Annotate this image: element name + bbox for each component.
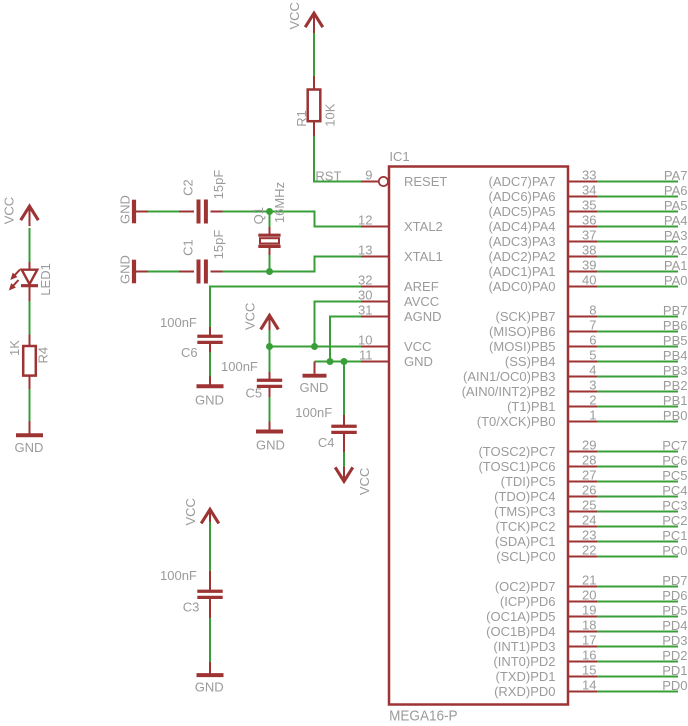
svg-text:(INT0)PD2: (INT0)PD2 (493, 654, 555, 669)
pin 25 stub ((TMS)PC3) (568, 511, 597, 513)
svg-text:31: 31 (358, 303, 372, 318)
pin 16 stub ((INT0)PD2) (568, 661, 597, 663)
wire C2 to XTAL2 node (211, 211, 223, 213)
svg-text:25: 25 (582, 498, 596, 513)
svg-text:(TMS)PC3: (TMS)PC3 (494, 504, 555, 519)
power VCC symbol (below C4, arrow down) (335, 467, 353, 481)
pin 35 stub ((ADC5)PA5) (568, 211, 597, 213)
svg-text:35: 35 (582, 198, 596, 213)
svg-text:(OC2)PD7: (OC2)PD7 (495, 579, 556, 594)
wire net PB1 (597, 406, 678, 408)
pin 22 stub ((SCL)PC0) (568, 556, 597, 558)
pin 40 stub ((ADC0)PA0) (568, 286, 597, 288)
capacitor C5 100nF (257, 379, 282, 382)
svg-text:100nF: 100nF (221, 359, 258, 374)
wire net PA4 (597, 226, 678, 228)
svg-text:PB4: PB4 (663, 348, 688, 363)
svg-text:PB0: PB0 (663, 408, 688, 423)
wire net PA2 (597, 256, 678, 258)
capacitor C2 15pF (197, 200, 201, 224)
svg-text:1: 1 (589, 408, 596, 423)
wire VCC rail to IC1 VCC (270, 346, 362, 348)
svg-text:XTAL2: XTAL2 (404, 219, 443, 234)
pin 14 stub ((RXD)PD0) (568, 691, 597, 693)
svg-text:(OC1A)PD5: (OC1A)PD5 (486, 609, 555, 624)
svg-text:7: 7 (589, 318, 596, 333)
svg-text:(ADC7)PA7: (ADC7)PA7 (489, 174, 556, 189)
wire net PC7 (597, 451, 678, 453)
pin 33 stub ((ADC7)PA7) (568, 181, 597, 183)
pin 30 stub (361, 301, 390, 303)
svg-text:PB3: PB3 (663, 363, 688, 378)
pin 4 stub ((AIN1/OC0)PB3) (568, 376, 597, 378)
svg-text:PA3: PA3 (664, 228, 688, 243)
pin 10 stub (361, 346, 390, 348)
svg-text:(INT1)PD3: (INT1)PD3 (493, 639, 555, 654)
svg-text:(MISO)PB6: (MISO)PB6 (489, 324, 555, 339)
pin 38 stub ((ADC2)PA2) (568, 256, 597, 258)
wire net PB6 (597, 331, 678, 333)
svg-text:GND: GND (118, 255, 133, 284)
svg-text:18: 18 (582, 618, 596, 633)
svg-text:(SCK)PB7: (SCK)PB7 (496, 309, 556, 324)
svg-text:GND: GND (118, 195, 133, 224)
svg-text:C6: C6 (181, 345, 198, 360)
pin 20 stub ((ICP)PD6) (568, 601, 597, 603)
pin 27 stub ((TDI)PC5) (568, 481, 597, 483)
pin 15 stub ((TXD)PD1) (568, 676, 597, 678)
svg-text:17: 17 (582, 633, 596, 648)
wire net PD4 (597, 631, 678, 633)
pin 37 stub ((ADC3)PA3) (568, 241, 597, 243)
wire net PB0 (597, 421, 678, 423)
svg-text:PD1: PD1 (662, 663, 687, 678)
wire net PD0 (597, 691, 678, 693)
wire GND to C2 (148, 211, 179, 213)
svg-text:(SCL)PC0: (SCL)PC0 (496, 549, 555, 564)
svg-text:(OC1B)PD4: (OC1B)PD4 (486, 624, 555, 639)
svg-text:3: 3 (589, 378, 596, 393)
wire C6 to ground (209, 342, 211, 353)
wire C3 to ground (209, 597, 211, 619)
svg-text:C3: C3 (183, 600, 200, 615)
wire LED1 cathode to R4 (29, 287, 31, 301)
pin 36 stub ((ADC4)PA4) (568, 226, 597, 228)
wire net PD5 (597, 616, 678, 618)
svg-text:24: 24 (582, 513, 596, 528)
pin 9 stub with inverting bubble (361, 181, 379, 183)
wire net PD3 (597, 646, 678, 648)
svg-text:(MOSI)PB5: (MOSI)PB5 (489, 339, 555, 354)
svg-text:(RXD)PD0: (RXD)PD0 (494, 684, 555, 699)
wire net PA6 (597, 196, 678, 198)
svg-text:21: 21 (582, 573, 596, 588)
svg-text:10K: 10K (323, 103, 338, 126)
svg-text:37: 37 (582, 228, 596, 243)
wire VCC to LED1 anode (29, 228, 31, 262)
wire net PC1 (597, 541, 678, 543)
resistor R4 1K (23, 346, 36, 376)
ground symbol (C1) (135, 271, 148, 273)
svg-text:PC6: PC6 (662, 453, 687, 468)
svg-text:PD2: PD2 (662, 648, 687, 663)
ground symbol (C6) (209, 376, 211, 385)
wire net PC4 (597, 496, 678, 498)
wire XTAL1 node to IC1 XTAL1 (314, 257, 316, 273)
svg-text:27: 27 (582, 468, 596, 483)
wire net PC3 (597, 511, 678, 513)
svg-text:C5: C5 (246, 385, 263, 400)
power VCC symbol (C3) (201, 509, 219, 523)
ground symbol (LED branch) (29, 425, 31, 434)
pin 31 stub (361, 316, 390, 318)
svg-text:RESET: RESET (404, 174, 447, 189)
svg-text:20: 20 (582, 588, 596, 603)
junction AGND-GND (327, 358, 334, 365)
svg-text:MEGA16-P: MEGA16-P (389, 708, 458, 725)
svg-text:PC4: PC4 (662, 483, 687, 498)
svg-text:100nF: 100nF (295, 405, 332, 420)
junction VCC rail (266, 343, 273, 350)
svg-text:2: 2 (589, 393, 596, 408)
resistor R1 10K (308, 90, 321, 122)
svg-text:IC1: IC1 (389, 149, 409, 164)
wire IC1 AREF to C6 (210, 286, 361, 288)
svg-text:PA2: PA2 (664, 243, 688, 258)
wire net PC0 (597, 556, 678, 558)
wire IC1 AVCC to VCC net (315, 301, 362, 303)
svg-text:PA6: PA6 (664, 183, 688, 198)
pin 19 stub ((OC1A)PD5) (568, 616, 597, 618)
svg-text:30: 30 (358, 288, 372, 303)
svg-text:PD0: PD0 (662, 678, 687, 693)
svg-text:PC0: PC0 (662, 543, 687, 558)
svg-text:GND: GND (15, 440, 44, 455)
pin 3 stub ((AIN0/INT2)PB2) (568, 391, 597, 393)
svg-text:36: 36 (582, 213, 596, 228)
pin 13 stub (361, 256, 390, 258)
wire IC1 AGND to GND net (330, 316, 361, 318)
wire VCC arrow to rail (269, 330, 271, 347)
svg-text:(SDA)PC1: (SDA)PC1 (495, 534, 556, 549)
pin 26 stub ((TDO)PC4) (568, 496, 597, 498)
svg-text:11: 11 (359, 348, 373, 363)
svg-text:(ICP)PD6: (ICP)PD6 (500, 594, 556, 609)
junction C4-GND (341, 358, 348, 365)
svg-text:28: 28 (582, 453, 596, 468)
ground symbol (logic GND) (314, 362, 316, 374)
svg-text:(ADC2)PA2: (ADC2)PA2 (489, 249, 556, 264)
svg-text:GND: GND (195, 393, 224, 408)
svg-text:PA5: PA5 (664, 198, 688, 213)
svg-text:PD3: PD3 (662, 633, 687, 648)
svg-text:(TCK)PC2: (TCK)PC2 (496, 519, 556, 534)
svg-text:23: 23 (582, 528, 596, 543)
capacitor C6 100nF (197, 335, 222, 338)
svg-text:Q1: Q1 (251, 207, 266, 224)
svg-text:(SS)PB4: (SS)PB4 (505, 354, 556, 369)
wire net PA1 (597, 271, 678, 273)
svg-text:PD5: PD5 (662, 603, 687, 618)
pin 39 stub ((ADC1)PA1) (568, 271, 597, 273)
svg-text:14: 14 (582, 678, 596, 693)
wire rail to C5 (269, 347, 271, 372)
svg-text:PA7: PA7 (664, 168, 688, 183)
svg-text:PB7: PB7 (663, 303, 688, 318)
junction XTAL1 node (266, 268, 273, 275)
svg-text:PD4: PD4 (662, 618, 687, 633)
svg-text:PD7: PD7 (662, 573, 687, 588)
wire net PD2 (597, 661, 678, 663)
ground symbol (C2) (135, 211, 148, 213)
wire XTAL2 node to IC1 XTAL2 (314, 211, 316, 227)
wire R1 to RST net (313, 121, 315, 136)
svg-text:6: 6 (589, 333, 596, 348)
wire VCC to C3 (209, 522, 211, 571)
svg-text:VCC: VCC (2, 197, 17, 224)
svg-text:12: 12 (358, 213, 372, 228)
pin 21 stub ((OC2)PD7) (568, 586, 597, 588)
wire net PD6 (597, 601, 678, 603)
wire net PC2 (597, 526, 678, 528)
svg-text:15pF: 15pF (211, 170, 226, 200)
ground symbol (C3) (209, 665, 211, 674)
pin 11 stub (361, 361, 390, 363)
svg-text:19: 19 (582, 603, 596, 618)
svg-text:PC1: PC1 (662, 528, 687, 543)
svg-text:VCC: VCC (243, 303, 258, 330)
pin 23 stub ((SDA)PC1) (568, 541, 597, 543)
wire ground rail to C4 (343, 361, 345, 416)
svg-text:26: 26 (582, 483, 596, 498)
pin 5 stub ((SS)PB4) (568, 361, 597, 363)
svg-text:PD6: PD6 (662, 588, 687, 603)
wire net PB2 (597, 391, 678, 393)
svg-text:1K: 1K (7, 340, 22, 356)
pin 24 stub ((TCK)PC2) (568, 526, 597, 528)
op IC1 MEGA16-P body (389, 167, 568, 705)
pin 34 stub ((ADC6)PA6) (568, 196, 597, 198)
wire net PD7 (597, 586, 678, 588)
svg-text:33: 33 (582, 168, 596, 183)
svg-text:(ADC0)PA0: (ADC0)PA0 (489, 279, 556, 294)
pin 1 stub ((T0/XCK)PB0) (568, 421, 597, 423)
pin 6 stub ((MOSI)PB5) (568, 346, 597, 348)
wire net PC6 (597, 466, 678, 468)
pin 32 stub (361, 286, 390, 288)
svg-text:R4: R4 (36, 347, 51, 364)
pin 2 stub ((T1)PB1) (568, 406, 597, 408)
svg-text:(ADC6)PA6: (ADC6)PA6 (489, 189, 556, 204)
wire net PB7 (597, 316, 678, 318)
svg-text:R1: R1 (294, 110, 309, 127)
svg-text:PA0: PA0 (664, 273, 688, 288)
wire net PA3 (597, 241, 678, 243)
svg-text:PB2: PB2 (663, 378, 688, 393)
svg-text:32: 32 (358, 273, 372, 288)
svg-text:15pF: 15pF (211, 230, 226, 260)
svg-text:(AIN1/OC0)PB3: (AIN1/OC0)PB3 (463, 369, 555, 384)
svg-text:40: 40 (582, 273, 596, 288)
power VCC symbol (RST pull-up) (305, 13, 323, 27)
pin 17 stub ((INT1)PD3) (568, 646, 597, 648)
svg-text:13: 13 (358, 243, 372, 258)
svg-text:22: 22 (582, 543, 596, 558)
svg-text:GND: GND (300, 380, 329, 395)
svg-text:(TOSC1)PC6: (TOSC1)PC6 (478, 459, 555, 474)
svg-text:(AIN0/INT2)PB2: (AIN0/INT2)PB2 (462, 384, 556, 399)
pin 8 stub ((SCK)PB7) (568, 316, 597, 318)
wire C5 to ground (269, 386, 271, 398)
svg-text:(ADC1)PA1: (ADC1)PA1 (489, 264, 556, 279)
svg-text:15: 15 (582, 663, 596, 678)
svg-text:PA4: PA4 (664, 213, 688, 228)
svg-text:10: 10 (358, 333, 372, 348)
crystal Q1 16MHz (269, 212, 271, 227)
svg-text:39: 39 (582, 258, 596, 273)
junction XTAL2 node (266, 208, 273, 215)
power VCC symbol (VCC rail) (261, 315, 279, 329)
wire IC1 GND to ground (315, 361, 362, 363)
svg-text:PC2: PC2 (662, 513, 687, 528)
svg-text:XTAL1: XTAL1 (404, 249, 443, 264)
wire R4 to ground (29, 376, 31, 389)
svg-text:VCC: VCC (287, 2, 302, 29)
svg-text:(T1)PB1: (T1)PB1 (507, 399, 555, 414)
svg-text:AVCC: AVCC (404, 294, 439, 309)
svg-text:AGND: AGND (404, 309, 442, 324)
capacitor C1 15pF (197, 260, 201, 284)
svg-text:PB1: PB1 (663, 393, 688, 408)
svg-text:38: 38 (582, 243, 596, 258)
svg-text:GND: GND (195, 680, 224, 695)
svg-text:AREF: AREF (404, 279, 439, 294)
junction AVCC-VCC (311, 343, 318, 350)
svg-text:9: 9 (365, 168, 372, 183)
wire net PA7 (597, 181, 678, 183)
svg-text:PC7: PC7 (662, 438, 687, 453)
pin 28 stub ((TOSC1)PC6) (568, 466, 597, 468)
svg-text:PB5: PB5 (663, 333, 688, 348)
wire net PD1 (597, 676, 678, 678)
svg-text:100nF: 100nF (160, 315, 197, 330)
svg-text:(TOSC2)PC7: (TOSC2)PC7 (478, 444, 555, 459)
svg-text:(T0/XCK)PB0: (T0/XCK)PB0 (477, 414, 556, 429)
svg-text:GND: GND (404, 354, 433, 369)
wire net PB4 (597, 361, 678, 363)
capacitor C4 100nF (331, 425, 356, 428)
power VCC symbol (LED branch) (21, 206, 39, 220)
svg-text:VCC: VCC (357, 468, 372, 495)
wire net PB5 (597, 346, 678, 348)
svg-text:(ADC3)PA3: (ADC3)PA3 (489, 234, 556, 249)
ground symbol (C5) (269, 422, 271, 431)
svg-text:(TXD)PD1: (TXD)PD1 (496, 669, 556, 684)
svg-text:VCC: VCC (183, 498, 198, 525)
svg-text:PC5: PC5 (662, 468, 687, 483)
svg-text:PA1: PA1 (664, 258, 688, 273)
svg-text:29: 29 (582, 438, 596, 453)
wire RST to IC1 RESET pin (313, 181, 361, 183)
capacitor C3 100nF (197, 590, 222, 593)
svg-text:PC3: PC3 (662, 498, 687, 513)
wire net PA5 (597, 211, 678, 213)
svg-text:5: 5 (589, 348, 596, 363)
wire C4 to VCC (343, 432, 345, 453)
svg-text:(ADC4)PA4: (ADC4)PA4 (489, 219, 556, 234)
pin 18 stub ((OC1B)PD4) (568, 631, 597, 633)
LED LED1 (22, 270, 38, 284)
svg-text:C2: C2 (181, 179, 196, 196)
svg-text:VCC: VCC (404, 339, 431, 354)
svg-text:(TDO)PC4: (TDO)PC4 (494, 489, 555, 504)
svg-text:4: 4 (589, 363, 596, 378)
wire GND to C1 (148, 271, 179, 273)
pin 12 stub (361, 226, 390, 228)
svg-text:34: 34 (582, 183, 596, 198)
svg-text:16: 16 (582, 648, 596, 663)
pin 29 stub ((TOSC2)PC7) (568, 451, 597, 453)
svg-text:8: 8 (589, 303, 596, 318)
svg-text:GND: GND (256, 438, 285, 453)
svg-text:(ADC5)PA5: (ADC5)PA5 (489, 204, 556, 219)
wire net PA0 (597, 286, 678, 288)
svg-text:16MHz: 16MHz (272, 182, 287, 223)
svg-text:C1: C1 (181, 239, 196, 256)
pin 7 stub ((MISO)PB6) (568, 331, 597, 333)
wire net PB3 (597, 376, 678, 378)
wire net PC5 (597, 481, 678, 483)
svg-text:C4: C4 (318, 435, 335, 450)
svg-text:LED1: LED1 (38, 263, 53, 296)
wire VCC to R1 (313, 33, 315, 76)
svg-text:(TDI)PC5: (TDI)PC5 (501, 474, 556, 489)
svg-text:100nF: 100nF (160, 568, 197, 583)
svg-text:PB6: PB6 (663, 318, 688, 333)
wire C1 to XTAL1 node (211, 271, 223, 273)
